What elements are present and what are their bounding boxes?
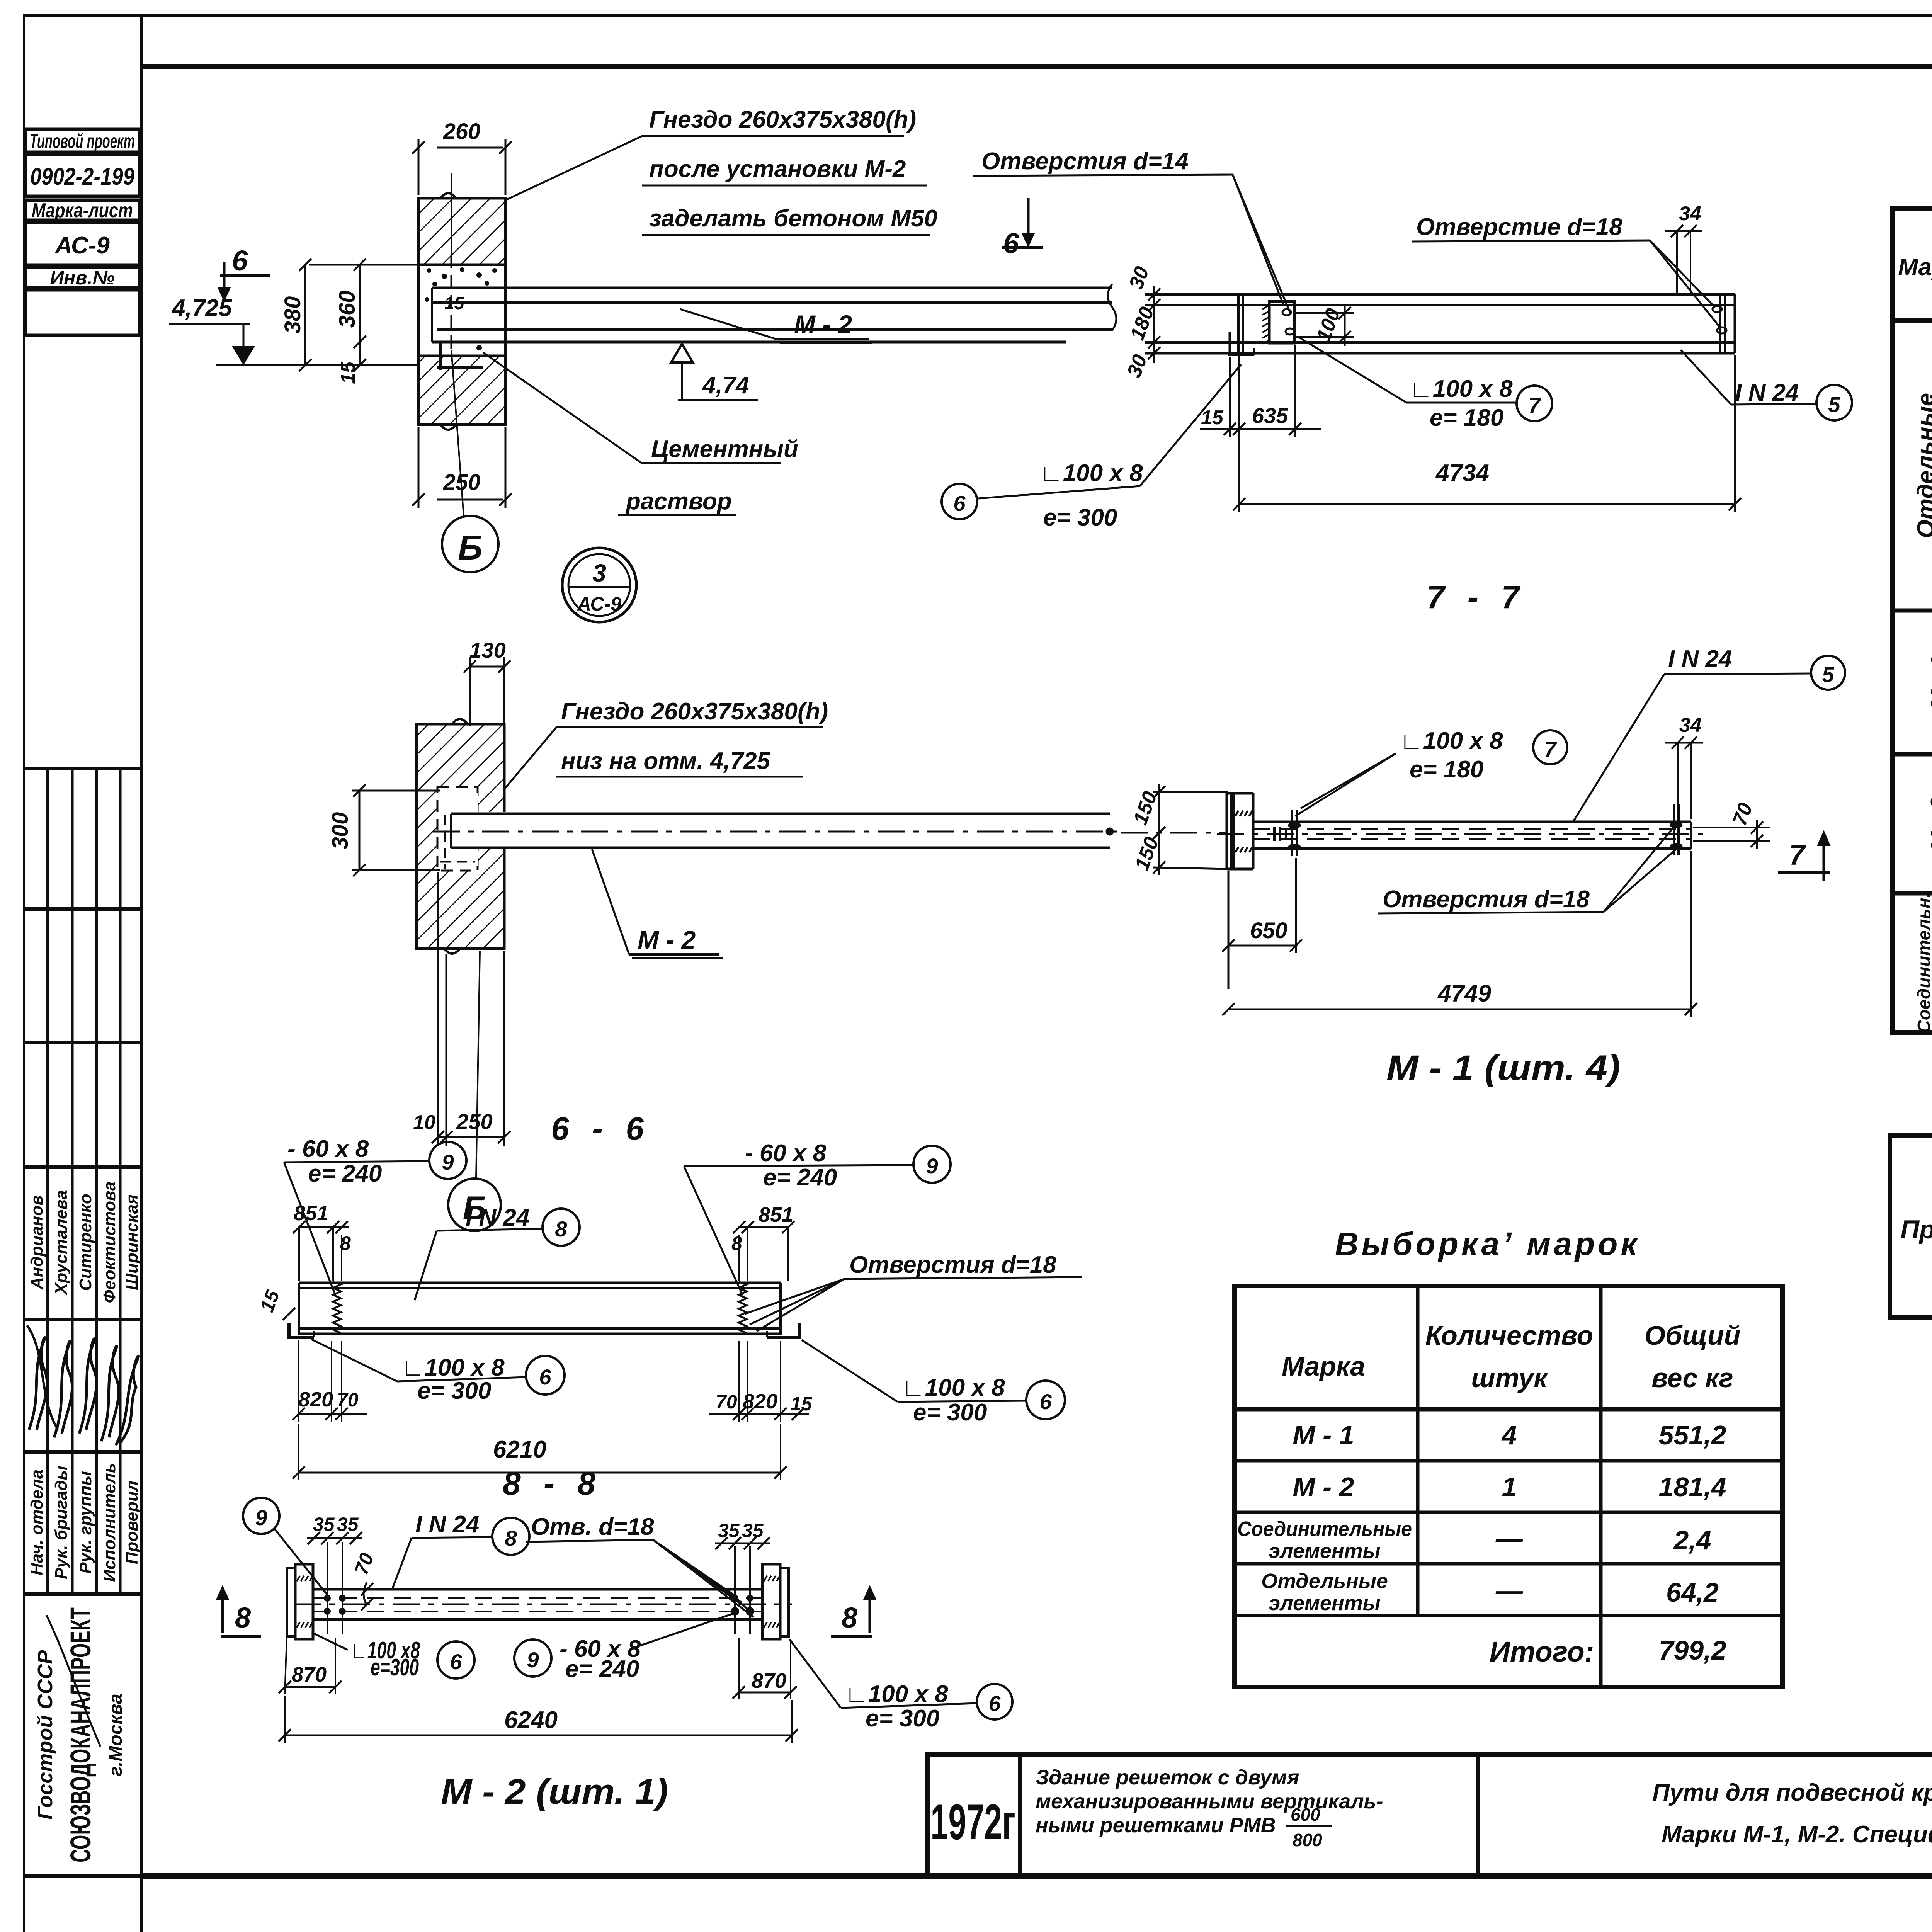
vertical dims 380 / 360 / 15 (305, 265, 419, 365)
svg-text:Отверстия d=14: Отверстия d=14 (981, 148, 1189, 175)
sidebar bottom org block (34, 1650, 126, 1820)
dims 10 250 bottom (438, 872, 504, 1146)
circle 9 top left with leader (243, 1498, 279, 1534)
svg-text:- 60 х 8: - 60 х 8 (745, 1140, 827, 1167)
svg-text:Соединительн.: Соединительн. (1914, 893, 1932, 1033)
svg-text:130: 130 (469, 638, 505, 662)
svg-text:35: 35 (742, 1520, 764, 1541)
svg-text:6: 6 (450, 1650, 462, 1674)
svg-text:М - 1 (шт. 4): М - 1 (шт. 4) (1386, 1048, 1620, 1088)
label 6 (942, 484, 977, 519)
4,74 elevation (open triangle up) (671, 344, 693, 362)
svg-text:35: 35 (313, 1514, 335, 1535)
svg-text:7: 7 (1544, 737, 1557, 761)
svg-text:I N 24: I N 24 (1735, 379, 1799, 406)
left end plates (287, 1568, 295, 1636)
left angle foot (289, 1323, 314, 1337)
svg-text:4: 4 (1501, 1420, 1517, 1450)
dim 4734 (1239, 503, 1735, 505)
svg-text:35: 35 (718, 1520, 740, 1541)
svg-text:8: 8 (842, 1602, 858, 1634)
svg-text:6 - 6: 6 - 6 (551, 1111, 651, 1147)
svg-text:10: 10 (413, 1111, 435, 1134)
svg-text:Пути для подвесной кран б: Пути для подвесной кран балки. (1652, 1779, 1932, 1806)
svg-text:Отверстие d=18: Отверстие d=18 (1416, 214, 1622, 240)
svg-text:I N 24: I N 24 (415, 1511, 479, 1538)
svg-text:Выборкаʼ марок: Выборкаʼ марок (1335, 1226, 1640, 1262)
6210 dim (299, 1472, 781, 1474)
8 section marks (221, 1600, 224, 1633)
svg-text:5: 5 (1822, 662, 1834, 687)
right stiffener (1673, 804, 1675, 855)
stiffener with bolts (1291, 810, 1293, 856)
svg-text:Итого:: Итого: (1490, 1636, 1594, 1668)
svg-text:4734: 4734 (1435, 460, 1489, 486)
svg-text:—: — (1495, 1575, 1523, 1605)
svg-text:799,2: 799,2 (1658, 1635, 1726, 1665)
svg-text:Соединительные: Соединительные (1237, 1517, 1412, 1541)
circle 3/АС-9 (562, 548, 636, 622)
dim 300 left (352, 791, 440, 870)
svg-text:360: 360 (335, 291, 360, 328)
svg-text:М - 2: М - 2 (1926, 796, 1932, 851)
svg-text:Ситиренко: Ситиренко (76, 1194, 95, 1291)
dim 250 (bottom of wall A) (418, 427, 505, 508)
svg-text:∟100 х 8: ∟100 х 8 (901, 1374, 1005, 1401)
svg-text:Отв. d=18: Отв. d=18 (531, 1514, 654, 1540)
svg-text:Рук. группы: Рук. группы (76, 1471, 95, 1574)
svg-text:I N 24: I N 24 (466, 1204, 529, 1231)
svg-text:6: 6 (232, 245, 248, 277)
svg-text:АС-9: АС-9 (54, 232, 110, 259)
svg-text:181,4: 181,4 (1658, 1472, 1726, 1502)
svg-text:Андрианов: Андрианов (27, 1195, 46, 1290)
svg-text:г.Москва: г.Москва (105, 1694, 126, 1776)
circle Б (442, 516, 498, 572)
dim 100 (1294, 305, 1354, 346)
svg-text:Отдельные: Отдельные (1913, 393, 1932, 538)
svg-text:800: 800 (1293, 1830, 1322, 1850)
small angle under beam left (1229, 332, 1231, 356)
6240 dim (285, 1735, 792, 1736)
svg-text:7: 7 (1528, 393, 1541, 417)
svg-text:вес кг: вес кг (1651, 1363, 1733, 1393)
svg-text:раствор: раствор (625, 488, 732, 515)
150/150 dims (1121, 784, 1228, 875)
svg-text:7 - 7: 7 - 7 (1427, 579, 1526, 615)
svg-text:М - 1: М - 1 (1293, 1420, 1354, 1450)
svg-text:8: 8 (731, 1233, 742, 1254)
svg-text:70: 70 (337, 1389, 359, 1411)
weld ticks on left edge of angle (1262, 305, 1269, 344)
svg-text:Ширинская: Ширинская (122, 1194, 141, 1290)
svg-text:М - 2: М - 2 (794, 310, 852, 338)
svg-text:е= 300: е= 300 (417, 1378, 491, 1404)
beam (1253, 821, 1691, 823)
svg-text:СОЮЗВОДОКАНАЛПРОЕКТ: СОЮЗВОДОКАНАЛПРОЕКТ (65, 1607, 97, 1862)
sidebar right edge (140, 15, 143, 1932)
concrete dots in гнездо (425, 267, 497, 350)
beam (313, 1588, 762, 1591)
svg-text:Марки М-1, М-2. Спецификац: Марки М-1, М-2. Спецификация. (1662, 1821, 1932, 1848)
650 dim (1228, 858, 1296, 989)
svg-text:Цементный: Цементный (651, 436, 798, 463)
svg-text:6: 6 (1039, 1389, 1052, 1414)
svg-text:0902-2-199: 0902-2-199 (30, 163, 134, 190)
svg-text:элементы: элементы (1269, 1592, 1380, 1615)
svg-text:Общий: Общий (1645, 1320, 1741, 1350)
leader Гнездо (649, 106, 937, 232)
svg-text:250: 250 (456, 1109, 492, 1134)
svg-text:∟100 х 8: ∟100 х 8 (1409, 376, 1513, 402)
label 5 (1816, 385, 1852, 420)
svg-text:4,74: 4,74 (702, 372, 749, 399)
svg-text:3: 3 (592, 559, 606, 587)
svg-text:штук: штук (1471, 1363, 1549, 1393)
dims 30/180/30 left (1153, 286, 1155, 363)
svg-text:АС-9: АС-9 (577, 593, 621, 615)
гнездо dashed box (437, 787, 478, 871)
svg-text:е= 180: е= 180 (1410, 756, 1483, 783)
svg-text:635: 635 (1252, 403, 1288, 428)
svg-text:Марка-лист: Марка-лист (32, 199, 133, 222)
dims 15 / 635 (1200, 345, 1321, 437)
svg-text:Типовой проект: Типовой проект (30, 130, 135, 153)
svg-text:М - 2: М - 2 (638, 925, 696, 954)
svg-text:Исполнитель: Исполнитель (100, 1463, 119, 1582)
svg-text:9: 9 (255, 1505, 267, 1530)
angle under beam in wall (439, 342, 442, 370)
svg-text:Рук. бригады: Рук. бригады (52, 1466, 71, 1579)
svg-text:600: 600 (1291, 1804, 1320, 1825)
wall hatched, with гнездо gap (418, 193, 505, 430)
svg-text:е= 300: е= 300 (1043, 504, 1117, 531)
svg-text:Отверстия d=18: Отверстия d=18 (849, 1252, 1056, 1278)
sidebar top boxes (26, 129, 140, 335)
svg-text:Инв.№: Инв.№ (50, 267, 115, 289)
svg-text:9: 9 (527, 1648, 539, 1672)
svg-text:15: 15 (444, 293, 465, 313)
svg-text:9: 9 (442, 1150, 454, 1174)
svg-text:Нач. отдела: Нач. отдела (27, 1469, 46, 1575)
svg-text:6: 6 (539, 1365, 551, 1389)
svg-text:Хрусталева: Хрусталева (52, 1190, 71, 1296)
right end details (1719, 294, 1721, 353)
svg-text:1972г: 1972г (930, 1794, 1015, 1850)
svg-text:е=300: е=300 (371, 1654, 419, 1681)
svg-text:низ на отм. 4,725: низ на отм. 4,725 (561, 748, 771, 774)
svg-text:6: 6 (1003, 227, 1019, 259)
circle Б (448, 1179, 501, 1231)
svg-text:551,2: 551,2 (1658, 1420, 1726, 1450)
svg-text:6210: 6210 (493, 1436, 546, 1463)
svg-text:8 - 8: 8 - 8 (503, 1465, 602, 1502)
svg-text:Отдельные: Отдельные (1261, 1570, 1388, 1593)
svg-text:851: 851 (294, 1202, 328, 1225)
svg-text:64,2: 64,2 (1666, 1577, 1719, 1607)
svg-text:механизированными вертикаль-: механизированными вертикаль- (1036, 1790, 1383, 1813)
svg-text:заделать бетоном М50: заделать бетоном М50 (649, 205, 937, 232)
svg-text:е= 300: е= 300 (913, 1399, 987, 1426)
svg-text:34: 34 (1679, 714, 1702, 736)
svg-text:2,4: 2,4 (1673, 1525, 1711, 1555)
svg-text:34: 34 (1679, 202, 1701, 225)
svg-text:1: 1 (1502, 1472, 1517, 1502)
svg-text:после установки М-2: после установки М-2 (649, 156, 906, 182)
angle plate with holes (1269, 301, 1294, 343)
svg-text:Марка: Марка (1282, 1351, 1365, 1381)
svg-text:М - 1: М - 1 (1926, 655, 1932, 709)
svg-text:380: 380 (280, 296, 305, 334)
svg-text:Отверстия d=18: Отверстия d=18 (1383, 886, 1590, 913)
svg-text:М - 2: М - 2 (1293, 1472, 1354, 1502)
svg-text:Госстрой СССР: Госстрой СССР (34, 1650, 57, 1820)
svg-text:Марка: Марка (1898, 254, 1932, 281)
svg-text:6: 6 (988, 1691, 1001, 1716)
svg-text:Гнездо 260х375х380(h): Гнездо 260х375х380(h) (561, 698, 828, 725)
svg-text:Здание решеток с двумя: Здание решеток с двумя (1036, 1766, 1299, 1789)
svg-text:∟100 х 8: ∟100 х 8 (845, 1681, 948, 1708)
beam (448, 812, 506, 849)
svg-text:851: 851 (759, 1203, 793, 1226)
bolt columns (327, 1542, 328, 1634)
svg-text:Прокат: Прокат (1900, 1215, 1932, 1244)
right angle foot (767, 1323, 800, 1337)
svg-text:Гнездо 260х375х380(h): Гнездо 260х375х380(h) (649, 106, 916, 133)
beam M-2 side view (432, 255, 1116, 370)
svg-text:7: 7 (1789, 839, 1806, 871)
svg-text:М - 2 (шт. 1): М - 2 (шт. 1) (441, 1772, 668, 1811)
studs (zigzag) (333, 1282, 341, 1333)
svg-text:I N 24: I N 24 (1668, 646, 1732, 672)
svg-text:6240: 6240 (504, 1707, 558, 1733)
svg-text:∟100 х 8: ∟100 х 8 (1400, 728, 1503, 754)
svg-text:9: 9 (926, 1154, 938, 1178)
svg-text:300: 300 (328, 812, 353, 850)
4749 dim (1228, 1009, 1691, 1010)
svg-text:ными решетками РМВ: ными решетками РМВ (1036, 1814, 1276, 1837)
svg-text:- 60 х 8: - 60 х 8 (287, 1136, 369, 1162)
dim 130 top (470, 657, 504, 726)
svg-text:650: 650 (1250, 918, 1287, 943)
sidebar signature grid (24, 769, 141, 1876)
right end plates (762, 1564, 780, 1639)
svg-text:6: 6 (953, 491, 966, 515)
svg-text:870: 870 (292, 1663, 327, 1686)
svg-text:5: 5 (1828, 392, 1840, 417)
svg-text:Количество: Количество (1425, 1320, 1594, 1350)
end plate + bracket (1226, 793, 1228, 869)
dim 260 (top) (418, 139, 505, 195)
label 7 (1517, 386, 1552, 421)
svg-text:70: 70 (716, 1391, 737, 1413)
svg-text:∟100 х 8: ∟100 х 8 (401, 1354, 505, 1381)
svg-text:260: 260 (443, 119, 481, 144)
svg-text:8: 8 (340, 1233, 351, 1254)
svg-text:870: 870 (752, 1669, 786, 1692)
svg-text:Б: Б (458, 529, 483, 567)
signatures squiggles (27, 1325, 138, 1747)
svg-text:элементы: элементы (1269, 1539, 1380, 1563)
svg-text:е= 240: е= 240 (763, 1164, 837, 1191)
svg-text:е= 240: е= 240 (308, 1160, 382, 1187)
svg-text:е= 180: е= 180 (1430, 405, 1503, 431)
bolt near plate (1268, 827, 1286, 841)
svg-text:Феоктистова: Феоктистова (100, 1182, 119, 1303)
svg-text:8: 8 (235, 1602, 251, 1634)
svg-text:—: — (1495, 1523, 1523, 1553)
svg-text:е= 240: е= 240 (565, 1656, 639, 1682)
svg-text:4749: 4749 (1437, 980, 1491, 1007)
svg-text:8: 8 (505, 1526, 517, 1550)
svg-text:е= 300: е= 300 (866, 1705, 939, 1732)
svg-text:8: 8 (555, 1217, 567, 1241)
svg-text:∟100 х 8: ∟100 х 8 (1039, 460, 1143, 486)
svg-text:Проверил: Проверил (122, 1481, 141, 1564)
